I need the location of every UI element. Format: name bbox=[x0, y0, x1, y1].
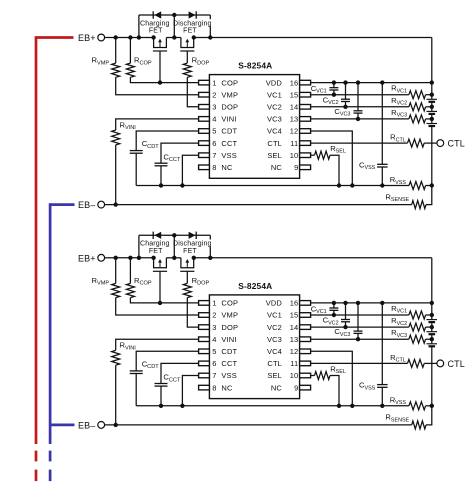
svg-text:2: 2 bbox=[212, 90, 216, 99]
svg-text:Discharging: Discharging bbox=[173, 20, 212, 27]
svg-text:CCT: CCT bbox=[221, 359, 237, 368]
svg-text:16: 16 bbox=[290, 78, 299, 87]
resistor RSEL (top block) bbox=[311, 144, 346, 188]
resistor RCOP (top block) bbox=[126, 38, 198, 85]
pin 4 box (bottom block) bbox=[199, 337, 210, 342]
pin 9 label (top block) bbox=[271, 163, 299, 172]
pin 16 box (top block) bbox=[300, 80, 311, 85]
pin 15 box (bottom block) bbox=[300, 313, 311, 318]
pin 7 box (top block) bbox=[199, 153, 210, 158]
wire EB- net (bottom block) bbox=[105, 424, 412, 426]
wire charging FET gate to COP (bottom block) bbox=[159, 271, 161, 303]
pin 8 box (bottom block) bbox=[199, 385, 210, 390]
wire pack negative (blue) bbox=[50, 203, 74, 481]
svg-text:Charging: Charging bbox=[140, 20, 170, 27]
svg-text:Discharging: Discharging bbox=[173, 241, 212, 248]
svg-text:VC2: VC2 bbox=[267, 323, 282, 332]
pin 14 label (bottom block) bbox=[267, 323, 298, 332]
pin 6 box (top block) bbox=[199, 141, 210, 146]
pin 13 box (bottom block) bbox=[300, 337, 311, 342]
svg-text:9: 9 bbox=[294, 383, 298, 392]
svg-text:VMP: VMP bbox=[221, 90, 238, 99]
battery cell 2 (bottom block) bbox=[427, 332, 438, 335]
svg-text:CTL: CTL bbox=[448, 139, 465, 149]
wire VSS net (top block) bbox=[136, 185, 409, 187]
battery cell 1 (top block) bbox=[427, 99, 438, 102]
pin 6 label (bottom block) bbox=[212, 359, 237, 368]
pin 7 label (bottom block) bbox=[212, 371, 237, 380]
svg-text:NC: NC bbox=[221, 383, 233, 392]
wire body-diode branch (top block) bbox=[139, 13, 210, 38]
resistor RSENSE (bottom block) bbox=[385, 406, 431, 429]
body diode of discharging FET (bottom block) bbox=[189, 232, 197, 239]
resistor RSENSE (top block) bbox=[385, 186, 431, 209]
pin 12 label (top block) bbox=[267, 127, 298, 136]
pin 1 label (bottom block) bbox=[212, 299, 238, 308]
svg-text:6: 6 bbox=[212, 359, 216, 368]
terminal CTL (bottom block) bbox=[437, 359, 465, 369]
transistor discharging FET (bottom block) bbox=[180, 258, 194, 272]
svg-text:S-8254A: S-8254A bbox=[238, 61, 272, 71]
resistor RVC2 (top block) bbox=[311, 96, 434, 111]
pin 2 box (top block) bbox=[199, 92, 210, 97]
body diode of charging FET (top block) bbox=[153, 11, 161, 18]
pin 5 box (bottom block) bbox=[199, 349, 210, 354]
svg-text:NC: NC bbox=[271, 163, 283, 172]
svg-text:CDT: CDT bbox=[221, 347, 237, 356]
terminal EB- (top block) bbox=[78, 200, 105, 210]
terminal EB- (bottom block) bbox=[78, 421, 105, 431]
svg-text:VC4: VC4 bbox=[267, 127, 282, 136]
pin 15 label (top block) bbox=[267, 90, 298, 99]
label Discharging FET (top block) bbox=[173, 19, 217, 34]
pin 13 label (top block) bbox=[267, 115, 298, 124]
svg-text:CDT: CDT bbox=[221, 127, 237, 136]
resistor RCTL (bottom block) bbox=[311, 353, 437, 368]
svg-text:EB–: EB– bbox=[78, 200, 95, 210]
pin 2 label (top block) bbox=[212, 90, 238, 99]
resistor RVSS (bottom block) bbox=[390, 396, 434, 410]
svg-text:COP: COP bbox=[221, 78, 238, 87]
pin 7 label (top block) bbox=[212, 151, 237, 160]
svg-text:DOP: DOP bbox=[221, 103, 238, 112]
wire pack positive (red) bbox=[36, 38, 74, 482]
svg-text:12: 12 bbox=[290, 347, 299, 356]
svg-text:CTL: CTL bbox=[448, 359, 465, 369]
label Charging FET (top block) bbox=[140, 19, 171, 34]
svg-text:13: 13 bbox=[290, 335, 299, 344]
pin 4 box (top block) bbox=[199, 117, 210, 122]
label Charging FET (bottom block) bbox=[140, 240, 171, 255]
transistor discharging FET (top block) bbox=[180, 38, 194, 52]
battery cell 2 (top block) bbox=[427, 111, 438, 114]
pin 10 box (top block) bbox=[300, 153, 311, 158]
svg-text:14: 14 bbox=[290, 323, 299, 332]
svg-text:NC: NC bbox=[221, 163, 233, 172]
svg-text:VC3: VC3 bbox=[267, 115, 282, 124]
svg-text:13: 13 bbox=[290, 115, 299, 124]
svg-text:VDD: VDD bbox=[266, 78, 283, 87]
pin 8 box (top block) bbox=[199, 165, 210, 170]
svg-text:11: 11 bbox=[290, 359, 298, 368]
svg-text:4: 4 bbox=[212, 335, 216, 344]
resistor RVC3 (bottom block) bbox=[311, 328, 434, 343]
pin 10 label (top block) bbox=[267, 151, 298, 160]
op-amp U1 S-8254A IC body (top block) bbox=[209, 61, 299, 179]
svg-text:Charging: Charging bbox=[140, 241, 170, 248]
pin 1 box (top block) bbox=[199, 80, 210, 85]
svg-text:COP: COP bbox=[221, 299, 238, 308]
body diode of discharging FET (top block) bbox=[189, 11, 197, 18]
pin 9 box (bottom block) bbox=[300, 385, 311, 390]
capacitor CVSS (bottom block) bbox=[359, 303, 388, 408]
wire VC4 to VSS (bottom block) bbox=[311, 351, 355, 408]
resistor RVC2 (bottom block) bbox=[311, 316, 434, 331]
battery cell 3 (top block) bbox=[427, 124, 438, 127]
pin 16 box (bottom block) bbox=[300, 301, 311, 306]
resistor RDOP (top block) bbox=[183, 51, 209, 107]
svg-text:10: 10 bbox=[290, 151, 299, 160]
pin 4 label (bottom block) bbox=[212, 335, 236, 344]
resistor RVINI (bottom block) bbox=[112, 339, 199, 427]
resistor RVC1 (bottom block) bbox=[311, 304, 434, 319]
pin 3 label (top block) bbox=[212, 103, 238, 112]
pin 11 label (bottom block) bbox=[267, 359, 298, 368]
capacitor CCDT (top block) bbox=[130, 131, 199, 186]
svg-text:VINI: VINI bbox=[221, 335, 236, 344]
wire battery stack rail (bottom block) bbox=[431, 258, 433, 406]
svg-text:EB+: EB+ bbox=[78, 254, 96, 264]
resistor RSEL (bottom block) bbox=[311, 364, 346, 408]
svg-text:VMP: VMP bbox=[221, 311, 238, 320]
capacitor CVC3 (top block) bbox=[334, 83, 362, 122]
svg-text:FET: FET bbox=[149, 248, 163, 255]
pin 9 label (bottom block) bbox=[271, 383, 299, 392]
wire VSS pin 7 (top block) bbox=[180, 155, 198, 188]
pin 11 box (bottom block) bbox=[300, 361, 311, 366]
pin 15 label (bottom block) bbox=[267, 311, 298, 320]
junction dots on EB+ rail (top block) bbox=[114, 35, 213, 39]
resistor RCOP (bottom block) bbox=[126, 258, 198, 305]
transistor charging FET (top block) bbox=[153, 38, 167, 52]
pin 14 box (bottom block) bbox=[300, 325, 311, 330]
wire VSS pin 7 (bottom block) bbox=[180, 376, 198, 408]
terminal CTL (top block) bbox=[437, 139, 465, 149]
pin 11 box (top block) bbox=[300, 141, 311, 146]
svg-text:VC3: VC3 bbox=[267, 335, 282, 344]
pin 12 box (top block) bbox=[300, 129, 311, 134]
svg-text:NC: NC bbox=[271, 383, 283, 392]
pin 9 box (top block) bbox=[300, 165, 311, 170]
svg-text:1: 1 bbox=[212, 299, 216, 308]
pin 1 box (bottom block) bbox=[199, 301, 210, 306]
pin 10 label (bottom block) bbox=[267, 371, 298, 380]
terminal EB+ (top block) bbox=[78, 33, 116, 43]
svg-text:9: 9 bbox=[294, 163, 298, 172]
capacitor CCCT (bottom block) bbox=[155, 363, 199, 408]
wire VSS net (bottom block) bbox=[136, 405, 409, 407]
resistor RVINI (top block) bbox=[112, 119, 199, 207]
capacitor CVC3 (bottom block) bbox=[334, 303, 362, 342]
svg-text:5: 5 bbox=[212, 127, 216, 136]
svg-text:2: 2 bbox=[212, 311, 216, 320]
svg-text:VC2: VC2 bbox=[267, 103, 282, 112]
capacitor CCDT (bottom block) bbox=[130, 351, 199, 406]
svg-text:VC1: VC1 bbox=[267, 311, 282, 320]
pin 3 box (top block) bbox=[199, 105, 210, 110]
svg-text:VINI: VINI bbox=[221, 115, 236, 124]
svg-text:10: 10 bbox=[290, 371, 299, 380]
svg-text:DOP: DOP bbox=[221, 323, 238, 332]
pin 16 label (bottom block) bbox=[266, 299, 299, 308]
svg-text:3: 3 bbox=[212, 323, 216, 332]
pin 6 box (bottom block) bbox=[199, 361, 210, 366]
svg-text:3: 3 bbox=[212, 103, 216, 112]
resistor RVC1 (top block) bbox=[311, 84, 434, 99]
svg-text:FET: FET bbox=[149, 28, 163, 35]
resistor RVC3 (top block) bbox=[311, 108, 434, 123]
pin 4 label (top block) bbox=[212, 115, 236, 124]
resistor RVSS (top block) bbox=[390, 175, 434, 189]
pin 5 box (top block) bbox=[199, 129, 210, 134]
wire body-diode branch (bottom block) bbox=[139, 233, 210, 258]
svg-text:FET: FET bbox=[183, 248, 197, 255]
svg-text:EB–: EB– bbox=[78, 421, 95, 431]
svg-text:5: 5 bbox=[212, 347, 216, 356]
pin 10 box (bottom block) bbox=[300, 373, 311, 378]
svg-text:1: 1 bbox=[212, 78, 216, 87]
resistor RVMP (top block) bbox=[92, 38, 199, 95]
capacitor CVC1 (top block) bbox=[311, 83, 339, 97]
battery cell 1 (bottom block) bbox=[427, 320, 438, 323]
svg-text:CTL: CTL bbox=[267, 139, 282, 148]
svg-text:SEL: SEL bbox=[267, 371, 282, 380]
pin 12 box (bottom block) bbox=[300, 349, 311, 354]
wire charging FET gate to COP (top block) bbox=[159, 51, 161, 83]
wire EB- net (top block) bbox=[105, 204, 412, 206]
pin 6 label (top block) bbox=[212, 139, 237, 148]
svg-text:FET: FET bbox=[183, 28, 197, 35]
wire VDD net (bottom block) bbox=[311, 301, 434, 305]
svg-text:S-8254A: S-8254A bbox=[238, 281, 272, 291]
pin 15 box (top block) bbox=[300, 92, 311, 97]
svg-text:14: 14 bbox=[290, 103, 299, 112]
capacitor CVC2 (bottom block) bbox=[323, 303, 350, 329]
svg-text:16: 16 bbox=[290, 299, 299, 308]
resistor RDOP (bottom block) bbox=[183, 271, 209, 327]
svg-text:15: 15 bbox=[290, 311, 299, 320]
pin 16 label (top block) bbox=[266, 78, 299, 87]
pin 14 box (top block) bbox=[300, 105, 311, 110]
pin 8 label (top block) bbox=[212, 163, 233, 172]
transistor charging FET (bottom block) bbox=[153, 258, 167, 272]
capacitor CVC2 (top block) bbox=[323, 83, 350, 109]
wire battery stack rail (top block) bbox=[431, 38, 433, 186]
junction dots on EB+ rail (bottom block) bbox=[114, 256, 213, 260]
pin 1 label (top block) bbox=[212, 78, 238, 87]
pin 7 box (bottom block) bbox=[199, 373, 210, 378]
svg-text:CTL: CTL bbox=[267, 359, 282, 368]
svg-text:11: 11 bbox=[290, 139, 298, 148]
svg-text:EB+: EB+ bbox=[78, 33, 96, 43]
body diode of charging FET (bottom block) bbox=[153, 232, 161, 239]
pin 3 label (bottom block) bbox=[212, 323, 238, 332]
pin 3 box (bottom block) bbox=[199, 325, 210, 330]
svg-text:15: 15 bbox=[290, 90, 299, 99]
pin 2 label (bottom block) bbox=[212, 311, 238, 320]
pin 13 label (bottom block) bbox=[267, 335, 298, 344]
svg-text:CCT: CCT bbox=[221, 139, 237, 148]
wire VC4 to VSS (top block) bbox=[311, 131, 355, 188]
pin 5 label (top block) bbox=[212, 127, 237, 136]
capacitor CVSS (top block) bbox=[359, 83, 388, 188]
capacitor CCCT (top block) bbox=[155, 143, 199, 188]
svg-text:VSS: VSS bbox=[221, 151, 236, 160]
resistor RCTL (top block) bbox=[311, 133, 437, 148]
pin 5 label (bottom block) bbox=[212, 347, 237, 356]
battery cell 3 (bottom block) bbox=[427, 344, 438, 347]
svg-text:VC4: VC4 bbox=[267, 347, 282, 356]
label Discharging FET (bottom block) bbox=[173, 240, 217, 255]
svg-text:VDD: VDD bbox=[266, 299, 283, 308]
svg-text:8: 8 bbox=[212, 163, 216, 172]
svg-text:7: 7 bbox=[212, 151, 216, 160]
pin 12 label (bottom block) bbox=[267, 347, 298, 356]
wire VDD net (top block) bbox=[311, 80, 434, 84]
svg-text:6: 6 bbox=[212, 139, 216, 148]
svg-text:7: 7 bbox=[212, 371, 216, 380]
capacitor CVC1 (bottom block) bbox=[311, 303, 339, 317]
pin 2 box (bottom block) bbox=[199, 313, 210, 318]
svg-text:12: 12 bbox=[290, 127, 299, 136]
op-amp U1 S-8254A IC body (bottom block) bbox=[209, 281, 299, 399]
resistor RVMP (bottom block) bbox=[92, 258, 199, 315]
wire EB+ rail (bottom block) bbox=[116, 257, 432, 259]
svg-text:SEL: SEL bbox=[267, 151, 282, 160]
pin 13 box (top block) bbox=[300, 117, 311, 122]
pin 14 label (top block) bbox=[267, 103, 298, 112]
svg-text:8: 8 bbox=[212, 383, 216, 392]
svg-text:VC1: VC1 bbox=[267, 90, 282, 99]
terminal EB+ (bottom block) bbox=[78, 254, 116, 264]
wire EB+ rail (top block) bbox=[116, 37, 432, 39]
svg-text:4: 4 bbox=[212, 115, 216, 124]
pin 8 label (bottom block) bbox=[212, 383, 233, 392]
svg-text:VSS: VSS bbox=[221, 371, 236, 380]
pin 11 label (top block) bbox=[267, 139, 298, 148]
